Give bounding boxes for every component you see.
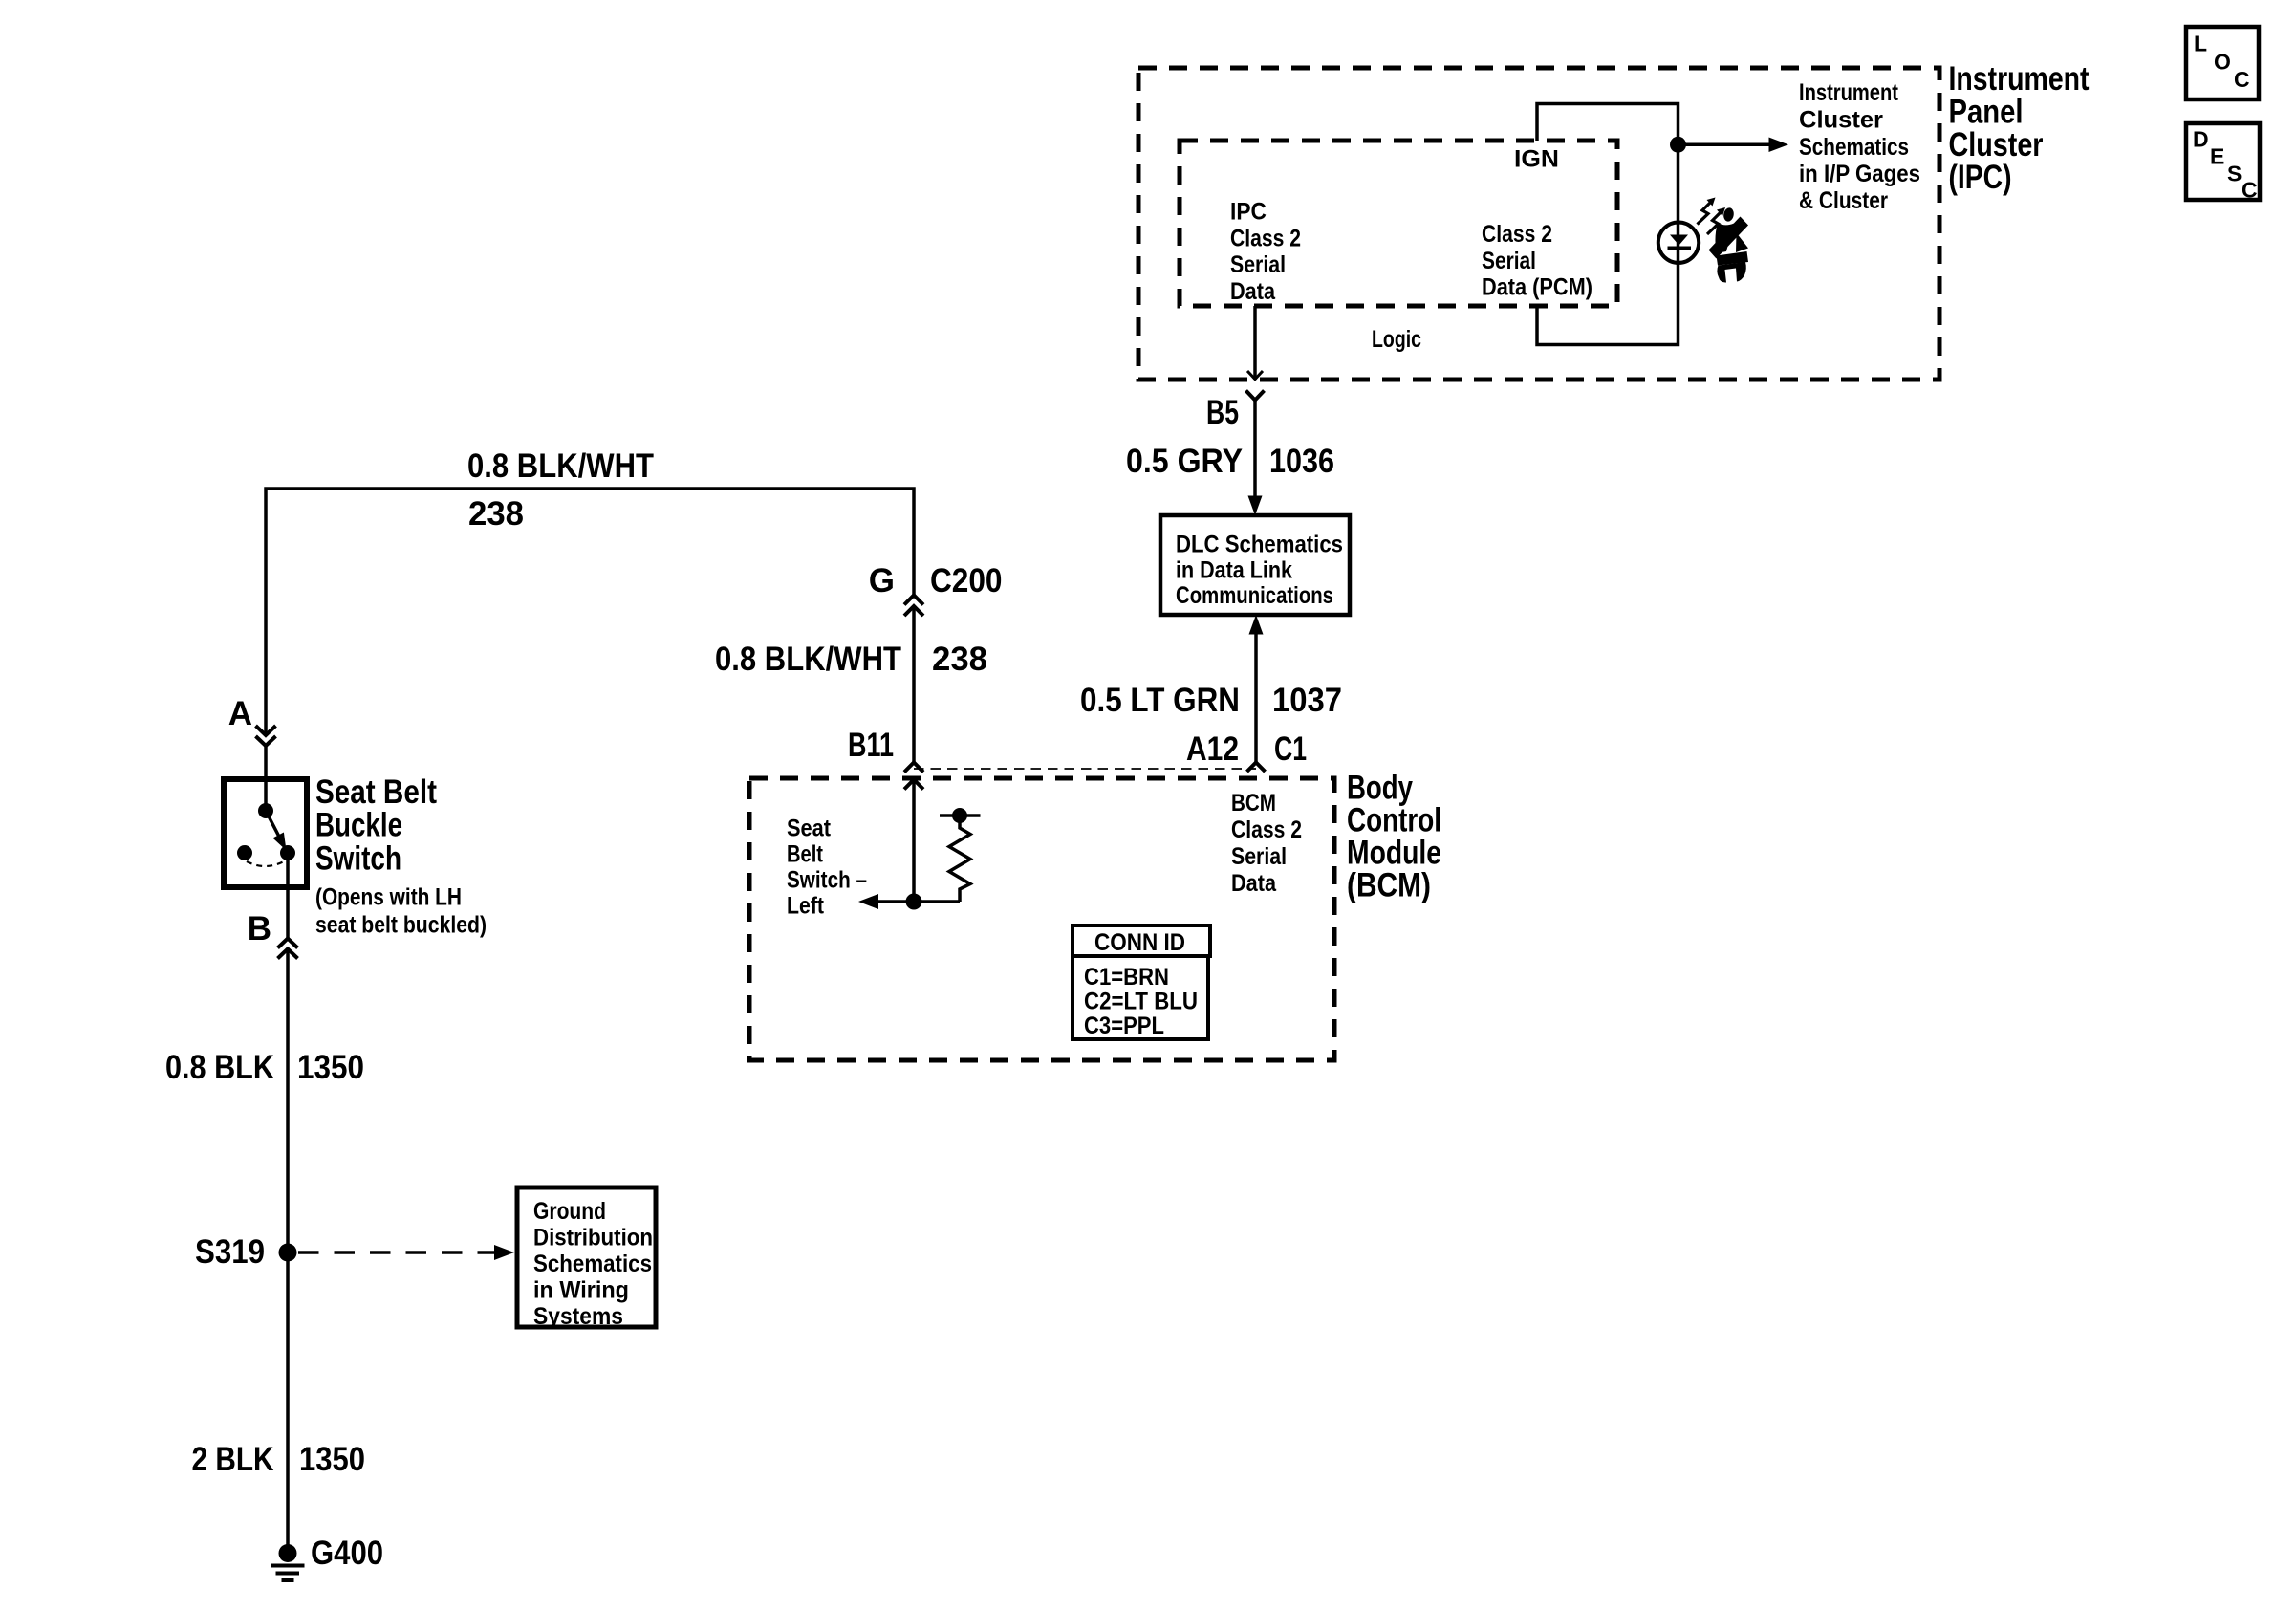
wire IGN loop upper (1537, 104, 1679, 223)
svg-text:B: B (248, 910, 271, 947)
svg-text:238: 238 (468, 495, 524, 533)
svg-text:0.8 BLK/WHT: 0.8 BLK/WHT (467, 447, 654, 485)
switch contact node (bottom) (280, 845, 295, 860)
svg-text:C: C (2234, 67, 2250, 92)
connector B11 male arrow (904, 780, 923, 790)
class 2 serial data PCM text (1482, 221, 1592, 301)
wire 1036 (0.5 GRY) B5 to DLC (1253, 401, 1257, 500)
node B11 junction dot (906, 894, 922, 910)
node resistor top dot (952, 808, 967, 823)
switch arm arrowhead (272, 833, 286, 851)
wire switch box feed (264, 746, 268, 811)
svg-text:IPC: IPC (1230, 199, 1267, 226)
wire 1037 (0.5 LT GRN) C1 to DLC (1254, 631, 1258, 763)
svg-text:Distribution: Distribution (533, 1225, 653, 1252)
svg-text:G: G (869, 562, 895, 599)
svg-text:Class 2: Class 2 (1482, 221, 1552, 248)
switch travel dashed arc (247, 861, 284, 866)
svg-text:Serial: Serial (1482, 248, 1536, 274)
svg-text:Data: Data (1231, 870, 1277, 897)
svg-text:(BCM): (BCM) (1347, 867, 1431, 904)
svg-text:B5: B5 (1206, 394, 1239, 431)
connector B11 female Y (904, 763, 923, 773)
svg-text:(IPC): (IPC) (1949, 159, 2012, 196)
arrowhead seat belt switch left signal (858, 894, 878, 909)
svg-text:B11: B11 (848, 727, 894, 764)
svg-text:1037: 1037 (1272, 682, 1342, 719)
node S319 junction dot (279, 1244, 297, 1262)
svg-text:Systems: Systems (533, 1303, 623, 1330)
CONN ID table header box (1072, 925, 1210, 956)
arrowhead into DLC box top (1248, 496, 1263, 516)
svg-text:A: A (228, 695, 252, 732)
IPC class 2 serial data text (1230, 199, 1301, 305)
ground distribution schematics box (517, 1187, 656, 1327)
svg-text:DLC Schematics: DLC Schematics (1176, 532, 1343, 558)
instrument panel cluster IPC dashed box (1138, 68, 1939, 380)
wire to instrument cluster schematics (1679, 142, 1772, 146)
svg-text:E: E (2210, 144, 2224, 169)
svg-text:0.8 BLK/WHT: 0.8 BLK/WHT (715, 641, 901, 678)
instrument cluster schematics reference text (1799, 79, 1920, 214)
svg-text:C3=PPL: C3=PPL (1084, 1012, 1164, 1039)
svg-text:0.5 LT GRN: 0.5 LT GRN (1080, 682, 1240, 719)
svg-text:Cluster: Cluster (1799, 107, 1883, 134)
svg-text:C: C (2242, 178, 2258, 203)
svg-text:seat belt buckled): seat belt buckled) (315, 912, 487, 939)
svg-text:2 BLK: 2 BLK (192, 1441, 274, 1478)
svg-text:1350: 1350 (297, 1049, 364, 1086)
connector B female Y (278, 939, 298, 948)
wire IGN loop lower (1537, 263, 1679, 345)
svg-text:Communications: Communications (1176, 582, 1333, 609)
svg-text:S319: S319 (195, 1233, 265, 1271)
body control module BCM dashed box (749, 778, 1334, 1060)
connector C1 female Y (1247, 763, 1266, 773)
connector B5 female Y (1246, 391, 1265, 401)
wire through LED (1677, 223, 1680, 264)
svg-text:D: D (2193, 127, 2209, 152)
connector G C200 male arrow (904, 606, 923, 616)
svg-text:238: 238 (932, 641, 987, 678)
wire 238 top horizontal (0.8 BLK/WHT) (266, 489, 914, 735)
svg-text:Logic: Logic (1372, 326, 1421, 353)
wire 1350 (0.8 BLK) to S319 (286, 949, 290, 1253)
svg-text:in I/P Gages: in I/P Gages (1799, 161, 1920, 187)
node IGN junction dot (1670, 137, 1686, 153)
BCM class 2 serial data text (1231, 790, 1302, 897)
switch contact node (top) (258, 803, 273, 818)
svg-text:Instrument: Instrument (1949, 60, 2090, 98)
svg-text:Switch: Switch (315, 840, 401, 878)
svg-text:(Opens with LH: (Opens with LH (315, 884, 462, 911)
CONN ID list box (1072, 956, 1208, 1039)
svg-text:Seat Belt: Seat Belt (315, 773, 437, 811)
wire IPC class 2 serial data output (1253, 306, 1257, 380)
svg-text:1350: 1350 (299, 1441, 365, 1478)
LOC legend box (2186, 27, 2259, 99)
svg-text:in Data Link: in Data Link (1176, 556, 1292, 583)
seat belt person icon (1709, 207, 1749, 283)
DESC legend box (2186, 123, 2260, 200)
arrowhead at IPC boundary (1247, 371, 1263, 380)
svg-text:Class 2: Class 2 (1230, 225, 1301, 251)
svg-text:BCM: BCM (1231, 790, 1276, 816)
svg-text:0.8 BLK: 0.8 BLK (165, 1049, 274, 1086)
svg-text:1036: 1036 (1269, 443, 1334, 480)
svg-text:S: S (2227, 162, 2242, 186)
labels left chain (165, 447, 654, 1572)
svg-text:C2=LT BLU: C2=LT BLU (1084, 989, 1198, 1015)
svg-text:IGN: IGN (1514, 146, 1559, 173)
wire B11 into BCM (912, 780, 916, 903)
svg-text:G400: G400 (311, 1535, 383, 1572)
seat belt switch left text (787, 816, 867, 920)
wire switch output to B (286, 853, 290, 939)
resistor R element (949, 816, 970, 902)
svg-text:CONN ID: CONN ID (1094, 929, 1185, 956)
svg-text:Schematics: Schematics (533, 1251, 652, 1277)
svg-text:Instrument: Instrument (1799, 79, 1899, 106)
svg-text:Seat: Seat (787, 816, 832, 842)
svg-text:Serial: Serial (1230, 251, 1286, 278)
svg-text:Panel: Panel (1949, 94, 2024, 131)
arrowhead into DLC box bottom (1249, 615, 1264, 635)
svg-text:Left: Left (787, 893, 825, 920)
connector A female Y (256, 736, 276, 746)
svg-text:C200: C200 (930, 562, 1003, 599)
svg-text:C1: C1 (1274, 730, 1307, 768)
LED lightning bolt 2 (1707, 210, 1722, 234)
BCM title (1347, 770, 1441, 904)
IPC title (1949, 60, 2090, 196)
svg-text:Switch –: Switch – (787, 867, 867, 894)
BCM connector face dashed line B11 to C1 (914, 768, 1256, 770)
svg-text:Schematics: Schematics (1799, 134, 1909, 161)
switch open contact node (237, 845, 252, 860)
svg-text:Data (PCM): Data (PCM) (1482, 274, 1592, 301)
DLC schematics box (1160, 515, 1350, 615)
svg-text:Class 2: Class 2 (1231, 816, 1302, 843)
svg-text:Data: Data (1230, 278, 1276, 305)
arrowhead to instrument cluster schematics (1769, 138, 1789, 153)
svg-text:Belt: Belt (787, 841, 824, 868)
wire 238 vertical (0.8 BLK/WHT) C200 to B11 (912, 606, 916, 763)
LED indicator lamp (1658, 223, 1699, 263)
seat belt buckle switch title (315, 773, 437, 878)
IPC inner logic dashed box (1180, 141, 1617, 306)
svg-text:Buckle: Buckle (315, 807, 402, 844)
svg-text:& Cluster: & Cluster (1799, 187, 1888, 214)
resistor R top terminal bar (940, 814, 981, 817)
svg-text:0.5 GRY: 0.5 GRY (1126, 443, 1243, 480)
wire dashed reference S319 to ground distribution (298, 1251, 495, 1254)
connector G C200 female Y (904, 596, 923, 605)
ground G400 (279, 1544, 297, 1562)
seat belt buckle switch SW box (224, 779, 307, 887)
svg-text:L: L (2194, 32, 2207, 56)
CONN ID list text (1084, 964, 1198, 1039)
wire 1350 (2 BLK) to G400 (286, 1252, 290, 1545)
LED lightning bolt 1 (1698, 201, 1713, 225)
svg-text:Serial: Serial (1231, 843, 1287, 870)
svg-text:in Wiring: in Wiring (533, 1277, 629, 1304)
wire seat belt switch signal horizontal (876, 900, 960, 903)
DLC box text (1176, 532, 1343, 610)
arrowhead to ground distribution box (494, 1245, 514, 1260)
svg-text:C1=BRN: C1=BRN (1084, 964, 1169, 991)
labels middle chain (715, 394, 1342, 768)
svg-text:Ground: Ground (533, 1198, 606, 1225)
wire switch arm (266, 811, 279, 837)
svg-text:O: O (2214, 50, 2231, 75)
svg-text:A12: A12 (1186, 730, 1239, 768)
connector B male arrow (278, 949, 298, 959)
connector A male arrow (256, 726, 276, 735)
